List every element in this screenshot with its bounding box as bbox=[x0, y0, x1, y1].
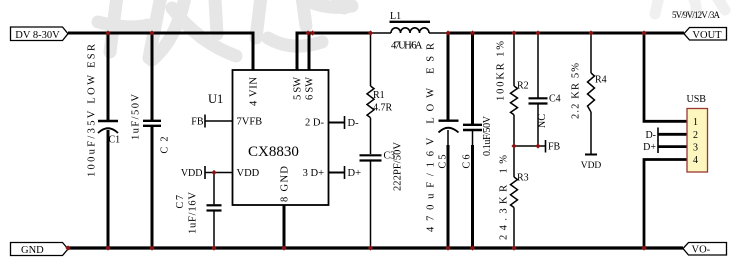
svg-text:2.2 KR 5%: 2.2 KR 5% bbox=[571, 63, 582, 119]
wire L1 to C5 bbox=[429, 32, 448, 34]
svg-text:R3: R3 bbox=[517, 173, 529, 184]
capacitor C6 bbox=[462, 33, 483, 248]
svg-text:D+: D+ bbox=[643, 142, 656, 153]
svg-text:D+: D+ bbox=[348, 168, 362, 179]
svg-text:R1: R1 bbox=[373, 90, 385, 101]
svg-text:FB: FB bbox=[548, 142, 561, 153]
svg-text:C7: C7 bbox=[175, 195, 186, 209]
svg-text:R4: R4 bbox=[595, 75, 607, 86]
svg-text:USB: USB bbox=[687, 94, 707, 105]
svg-text:VO-: VO- bbox=[692, 245, 711, 256]
svg-text:3 D+: 3 D+ bbox=[303, 168, 324, 179]
svg-text:2: 2 bbox=[693, 130, 698, 141]
svg-text:5 SW: 5 SW bbox=[293, 77, 304, 100]
svg-text:C4: C4 bbox=[549, 94, 561, 105]
svg-text:VOUT: VOUT bbox=[692, 30, 722, 41]
net label VDD (chip side) bbox=[181, 166, 233, 179]
svg-text:NC: NC bbox=[537, 114, 548, 128]
svg-text:100uF/35V LOW ESR: 100uF/35V LOW ESR bbox=[87, 44, 98, 177]
svg-text:R2: R2 bbox=[517, 81, 529, 92]
net label D- (USB side) bbox=[645, 128, 687, 141]
capacitor C5 bbox=[438, 33, 459, 248]
svg-text:6 SW: 6 SW bbox=[305, 77, 316, 100]
svg-text:C6: C6 bbox=[462, 155, 473, 169]
wire SW rail bbox=[297, 33, 372, 70]
svg-text:U1: U1 bbox=[208, 92, 223, 106]
flag GND bbox=[11, 243, 69, 257]
svg-text:470uF/16V LOW ESR: 470uF/16V LOW ESR bbox=[426, 43, 437, 232]
svg-text:VDD: VDD bbox=[181, 168, 203, 179]
wire chip GND bbox=[283, 205, 286, 248]
net label FB (divider) bbox=[514, 140, 561, 153]
svg-text:L1: L1 bbox=[390, 11, 401, 22]
capacitor C1 bbox=[98, 33, 120, 248]
svg-text:222PF/50V: 222PF/50V bbox=[393, 142, 404, 191]
wire input rail bbox=[68, 33, 253, 70]
svg-text:C2: C2 bbox=[160, 137, 171, 154]
net label D+ (USB side) bbox=[643, 140, 687, 153]
svg-text:5V/9V/12V /3A: 5V/9V/12V /3A bbox=[672, 10, 721, 20]
wire USB pin1 feed bbox=[644, 33, 687, 121]
power port VDD bbox=[581, 155, 602, 172]
resistor R1 bbox=[367, 33, 393, 154]
svg-text:D-: D- bbox=[645, 130, 656, 141]
op-amp U1 CX8830 bbox=[208, 70, 329, 205]
svg-text:24.3KR 1%: 24.3KR 1% bbox=[499, 155, 510, 240]
svg-text:0.1uF/50V: 0.1uF/50V bbox=[482, 115, 493, 156]
net label D- (chip side) bbox=[329, 116, 360, 129]
wire ground rail bbox=[68, 246, 683, 249]
wire output rail bbox=[448, 32, 684, 35]
svg-text:4: 4 bbox=[693, 155, 698, 166]
net label D+ (chip side) bbox=[329, 166, 362, 179]
capacitor C4 bbox=[529, 33, 561, 146]
flag DV 8-30V bbox=[11, 27, 69, 41]
svg-text:CX8830: CX8830 bbox=[248, 144, 299, 160]
svg-text:D-: D- bbox=[348, 118, 360, 129]
connector USB bbox=[687, 94, 708, 172]
capacitor C2 bbox=[143, 33, 171, 248]
svg-text:2 D-: 2 D- bbox=[305, 118, 324, 129]
wire USB pin4 feed bbox=[644, 160, 687, 249]
capacitor C7 bbox=[175, 173, 222, 249]
resistor R2 bbox=[511, 33, 529, 146]
net label FB (chip side) bbox=[191, 115, 232, 128]
wire rail to L1 bbox=[372, 32, 391, 34]
inductor L1 bbox=[390, 11, 431, 52]
svg-text:1uF/50V: 1uF/50V bbox=[131, 94, 142, 140]
resistor R4 bbox=[588, 33, 607, 154]
svg-text:7VFB: 7VFB bbox=[237, 117, 263, 128]
svg-text:3: 3 bbox=[693, 142, 698, 153]
flag VO- bbox=[683, 243, 727, 256]
capacitor C3 bbox=[360, 151, 396, 249]
svg-text:VDD: VDD bbox=[237, 168, 260, 179]
resistor R3 bbox=[511, 146, 529, 248]
svg-text:1: 1 bbox=[693, 117, 698, 128]
svg-text:4.7R: 4.7R bbox=[373, 103, 393, 114]
svg-text:FB: FB bbox=[191, 117, 204, 128]
svg-text:4 VIN: 4 VIN bbox=[249, 77, 260, 106]
svg-text:100KR 1%: 100KR 1% bbox=[496, 41, 507, 101]
svg-text:C1: C1 bbox=[109, 135, 121, 146]
svg-text:47UH/6A: 47UH/6A bbox=[391, 41, 423, 52]
svg-text:DV 8-30V: DV 8-30V bbox=[15, 30, 60, 41]
wire SW2 bbox=[308, 33, 311, 70]
svg-text:VDD: VDD bbox=[581, 161, 602, 171]
watermark bbox=[98, 0, 352, 60]
svg-text:1uF/16V: 1uF/16V bbox=[188, 192, 199, 234]
flag VOUT bbox=[684, 28, 727, 41]
svg-text:GND: GND bbox=[21, 245, 44, 256]
